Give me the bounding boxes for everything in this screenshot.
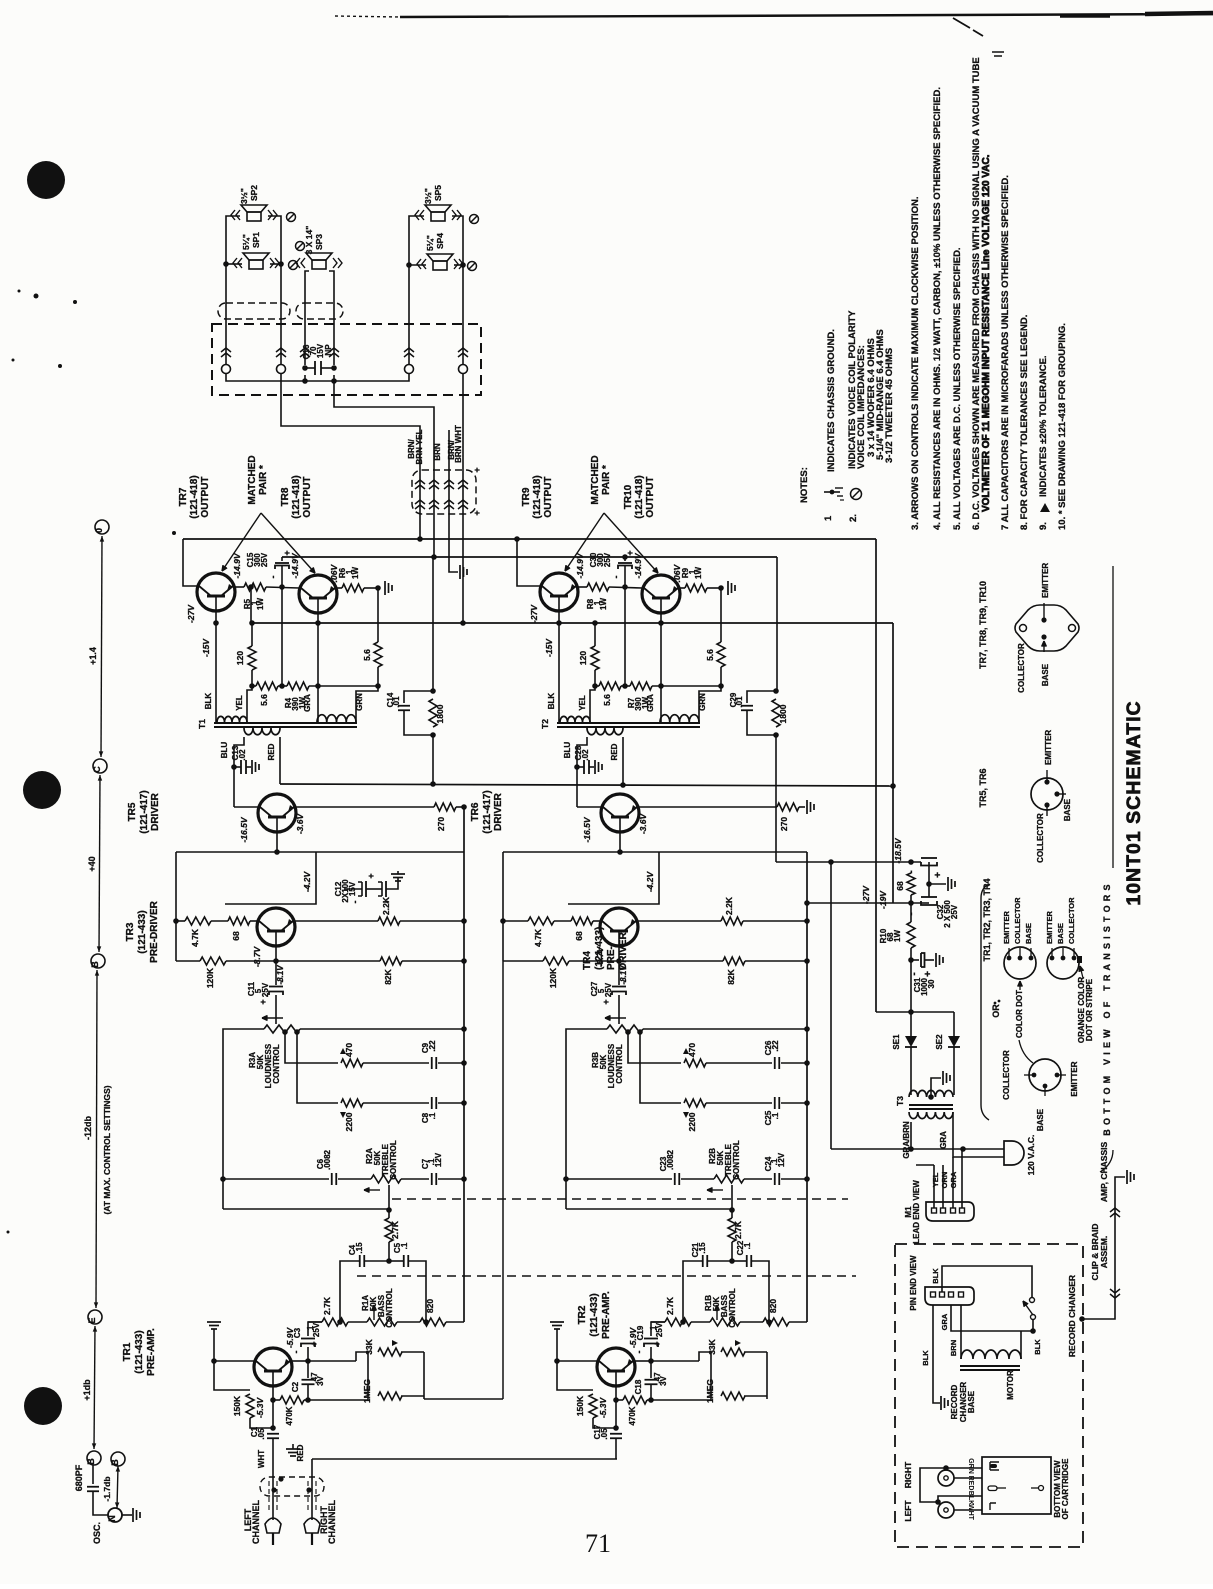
- transistor TR5: [258, 794, 296, 832]
- polarity mark SP5: [470, 215, 479, 224]
- wire speaker line down: [432, 557, 434, 691]
- junction RED rail: [890, 783, 896, 789]
- svg-text:120: 120: [235, 651, 245, 665]
- svg-text:OUTPUT: OUTPUT: [302, 476, 313, 517]
- junction: [622, 683, 628, 689]
- resistor R6: [342, 584, 364, 592]
- svg-text:OUTPUT: OUTPUT: [200, 476, 211, 517]
- svg-text:+: +: [652, 1341, 662, 1346]
- wire TR5 base down: [619, 832, 621, 852]
- speaker SP1: [249, 260, 263, 269]
- wire: [554, 920, 571, 922]
- wire GRN: [946, 1467, 982, 1469]
- wire to collector: [557, 1360, 597, 1362]
- resistor 68: [907, 873, 915, 895]
- node C: [93, 759, 107, 773]
- node B3: [111, 1452, 125, 1466]
- wire: [781, 1102, 807, 1104]
- resistor 2.7K (treble): [385, 1218, 393, 1242]
- wire: [556, 1329, 558, 1361]
- wire bass row to C3: [651, 1322, 665, 1336]
- wire connector bus: [226, 374, 409, 382]
- svg-text:-27V: -27V: [529, 604, 539, 623]
- resistor 5.6 (left): [599, 682, 621, 690]
- wire emitter: [292, 1360, 308, 1362]
- junction rail/TR9 feed: [514, 536, 520, 542]
- wire SP3 left down: [305, 271, 309, 360]
- wire M1 pin3: [952, 1157, 954, 1208]
- svg-text:-: -: [909, 972, 920, 975]
- junction: [430, 732, 436, 738]
- wire right bus: [463, 807, 465, 1322]
- transistor TR8: [299, 575, 337, 613]
- wire to C27: [618, 961, 620, 985]
- svg-text:PAIR *: PAIR *: [258, 465, 269, 495]
- wire TR2 base down: [615, 1386, 617, 1430]
- ground preamp: [207, 1321, 221, 1323]
- switch: [1030, 1298, 1035, 1303]
- connector pin end view: [925, 1287, 974, 1305]
- svg-text:INDICATES ±20% TOLERANCE.: INDICATES ±20% TOLERANCE.: [1038, 355, 1049, 497]
- svg-text:.01: .01: [392, 696, 401, 708]
- wire SP1 right: [270, 263, 281, 265]
- transistor TR3: [257, 908, 295, 946]
- svg-text:.05: .05: [257, 1428, 266, 1440]
- wire: [699, 1352, 711, 1361]
- resistor 33K: [721, 1348, 745, 1356]
- svg-text:-8.7V: -8.7V: [595, 946, 605, 968]
- junction 4.7K row: [173, 918, 179, 924]
- node B2: [87, 1451, 101, 1465]
- svg-text:10. * SEE DRAWING 121-418 FOR: 10. * SEE DRAWING 121-418 FOR GROUPING.: [1057, 323, 1068, 530]
- connector pin: [277, 365, 286, 374]
- wire 150K to base: [593, 1418, 616, 1428]
- svg-text:33K: 33K: [364, 1338, 374, 1354]
- svg-text:TR9: TR9: [521, 487, 532, 506]
- svg-text:120K: 120K: [205, 967, 215, 988]
- wire TR3 emitter row: [295, 920, 378, 922]
- pointer to TR9: [565, 513, 604, 571]
- svg-text:120K: 120K: [548, 967, 558, 988]
- capacitor C24: [774, 1173, 776, 1185]
- resistor 470K: [280, 1396, 304, 1404]
- polarity symbol in notes: [851, 489, 862, 500]
- ground AMP CHASSIS: [1126, 1170, 1128, 1184]
- amp connector chevron: [415, 480, 425, 484]
- wire SE feed: [876, 1011, 954, 1013]
- svg-text:SP5: SP5: [433, 185, 443, 201]
- ground C32: [947, 877, 949, 891]
- resistor 1MEG: [378, 1392, 402, 1400]
- punch hole 1: [27, 161, 65, 199]
- wire switch down: [1032, 1319, 1034, 1331]
- svg-text:-: -: [277, 980, 287, 983]
- wire: [308, 1321, 322, 1323]
- connector chevron: [300, 348, 310, 352]
- capacitor C12 (2x100): [344, 888, 362, 890]
- wire motor to switch: [1020, 1331, 1022, 1359]
- svg-text:VOLTMETER OF 11 MEGOHM INPUT R: VOLTMETER OF 11 MEGOHM INPUT RESISTANCE …: [981, 154, 992, 512]
- wire TR3 base down: [275, 946, 277, 961]
- potentiometer R2B treble control: [714, 1175, 744, 1183]
- wire M1 pin2: [942, 1165, 944, 1208]
- svg-text:BASE: BASE: [1036, 1108, 1045, 1131]
- wire: [401, 1395, 424, 1397]
- wire: [910, 948, 912, 1012]
- svg-text:(AT MAX. CONTROL SETTINGS): (AT MAX. CONTROL SETTINGS): [102, 1085, 112, 1214]
- wire: [651, 1399, 711, 1401]
- svg-text:3. ARROWS ON CONTROLS INDICAT: 3. ARROWS ON CONTROLS INDICATE MAXIMUM C…: [910, 196, 921, 530]
- wire: [388, 1242, 390, 1261]
- capacitor C14: [404, 691, 433, 703]
- wire through connector: [433, 470, 435, 530]
- svg-text:-4.2V: -4.2V: [302, 871, 312, 893]
- wire second rail: [282, 556, 777, 558]
- junction C30: [622, 554, 628, 560]
- svg-text:1W: 1W: [256, 598, 265, 610]
- wire TR3 base down: [618, 946, 620, 961]
- wire record changer to amp chassis: [1082, 1177, 1125, 1319]
- svg-text:PAIR *: PAIR *: [601, 465, 612, 495]
- wire: [743, 920, 807, 922]
- wire: [731, 1242, 733, 1261]
- tap 1: [282, 1029, 288, 1035]
- svg-text:470K: 470K: [285, 1406, 294, 1425]
- wire to rail: [419, 530, 421, 539]
- junction: [279, 683, 285, 689]
- wire: [651, 1360, 699, 1362]
- svg-text:GRA: GRA: [940, 1313, 949, 1330]
- svg-text:TR5, TR6: TR5, TR6: [978, 768, 988, 807]
- svg-text:C: C: [92, 766, 102, 773]
- wire BLK to switch: [942, 1266, 1032, 1297]
- junction 4.7K row: [500, 918, 506, 924]
- wire -4.2V branch: [568, 852, 659, 904]
- wire treble row left: [566, 1178, 672, 1180]
- wire: [910, 903, 912, 922]
- svg-text:.05: .05: [600, 1428, 609, 1440]
- resistor 820: [420, 1318, 446, 1326]
- potentiometer R2A treble control: [371, 1175, 401, 1183]
- svg-text:COLLECTOR: COLLECTOR: [1067, 897, 1076, 944]
- resistor 2.7K (treble): [728, 1218, 736, 1242]
- svg-text:-27V: -27V: [861, 885, 871, 904]
- junction shield: [278, 1476, 283, 1481]
- transistor TR6: [601, 794, 639, 832]
- transformer T1 secondary: [244, 728, 280, 735]
- svg-text:SE2: SE2: [935, 1034, 944, 1050]
- wire C5 to 820: [408, 1261, 426, 1322]
- capacitor C5: [403, 1255, 405, 1267]
- wire speaker feed BRN: [334, 381, 434, 470]
- svg-text:+1db: +1db: [82, 1379, 92, 1401]
- wire jack frames: [920, 1468, 946, 1502]
- wire to 150K: [557, 1361, 593, 1390]
- wire emitter: [635, 1360, 651, 1362]
- junction: [249, 683, 255, 689]
- wire: [211, 920, 228, 922]
- 120 VAC plug: [1004, 1141, 1024, 1165]
- pointer to TR8: [261, 513, 315, 573]
- svg-text:SE1: SE1: [892, 1034, 901, 1050]
- svg-text:.1: .1: [743, 1242, 752, 1249]
- svg-text:25V: 25V: [261, 982, 270, 997]
- svg-text:2.7K: 2.7K: [665, 1296, 675, 1315]
- wire RED feedback rail: [280, 784, 893, 786]
- svg-text:-4.2V: -4.2V: [645, 871, 655, 893]
- svg-text:CONTROL: CONTROL: [728, 1288, 737, 1328]
- svg-text:BRN: BRN: [433, 443, 442, 461]
- wire SP4 left: [409, 264, 426, 266]
- junction C16 left: [302, 365, 308, 371]
- svg-text:RED: RED: [610, 743, 619, 760]
- transformer T1 primary: [217, 716, 247, 722]
- wire: [275, 995, 277, 1014]
- wire: [744, 1178, 772, 1180]
- resistor 68: [228, 917, 250, 925]
- svg-text:COLLECTOR: COLLECTOR: [1013, 897, 1022, 944]
- svg-text:MATCHED: MATCHED: [247, 455, 258, 504]
- wire to C11: [275, 961, 277, 985]
- transistor TR2: [597, 1348, 635, 1386]
- svg-text:PRE-: PRE-: [606, 946, 617, 970]
- wire to 150K: [214, 1361, 250, 1390]
- svg-text:GRA/BRN: GRA/BRN: [902, 1121, 911, 1159]
- svg-text:C2: C2: [291, 1381, 300, 1392]
- svg-text:CONTROL: CONTROL: [272, 1044, 281, 1084]
- wire TR7 base to primary: [215, 611, 217, 722]
- svg-text:1W: 1W: [893, 930, 902, 942]
- color dot annotation: [1019, 981, 1021, 990]
- wire BLK to base ground: [933, 1305, 940, 1403]
- resistor 150K: [246, 1394, 254, 1418]
- svg-text:-: -: [620, 980, 630, 983]
- svg-text:DRIVER: DRIVER: [493, 792, 504, 831]
- junction C15/R5: [279, 584, 285, 590]
- pot track R3A: [264, 1025, 300, 1033]
- wire WHT to LEFT plug: [272, 1459, 274, 1520]
- wire: [363, 1102, 429, 1104]
- resistor 4.7K: [185, 917, 211, 925]
- wire tap2 to 2200: [297, 1032, 338, 1103]
- wire RED: [954, 1477, 982, 1479]
- wire rail to TR9 collector: [517, 539, 542, 586]
- svg-text:MOTOR: MOTOR: [1006, 1370, 1015, 1400]
- wire: [438, 1102, 464, 1104]
- wire to collector: [214, 1360, 254, 1362]
- wire: [233, 586, 244, 588]
- svg-text:EMITTER: EMITTER: [1045, 911, 1054, 944]
- svg-text:4. ALL RESISTANCES ARE IN OHM: 4. ALL RESISTANCES ARE IN OHMS. 1/2 WATT…: [932, 87, 943, 530]
- node B: [91, 954, 105, 968]
- svg-text:T1: T1: [197, 719, 207, 729]
- wire pot left down: [223, 1029, 264, 1209]
- wire C-B: [99, 775, 100, 952]
- svg-text:(121-418): (121-418): [532, 475, 543, 518]
- svg-text:3½": 3½": [239, 188, 249, 204]
- tap 1: [625, 1029, 631, 1035]
- potentiometer R1A bass control: [367, 1318, 397, 1326]
- svg-text:BOTTOM VIEW OF TRANSISTORS: BOTTOM VIEW OF TRANSISTORS: [1102, 880, 1112, 1135]
- wire to OSC node: [93, 1492, 108, 1515]
- svg-text:5.6: 5.6: [259, 694, 269, 706]
- pointer to TR7: [222, 513, 261, 571]
- wire input: [272, 1438, 274, 1459]
- junction C15/R5: [622, 584, 628, 590]
- svg-text:820: 820: [768, 1299, 778, 1313]
- connector pin: [405, 365, 414, 374]
- svg-text:BASE: BASE: [1041, 663, 1050, 686]
- wire to plug prong 2: [953, 1112, 1004, 1157]
- svg-text:(121-433): (121-433): [137, 910, 148, 953]
- svg-text:9.: 9.: [1038, 522, 1049, 530]
- svg-text:-15V: -15V: [544, 638, 554, 657]
- wire tap to ground: [931, 1078, 941, 1097]
- wire: [680, 587, 685, 589]
- motor coil: [961, 1350, 1021, 1359]
- svg-text:CHANNEL: CHANNEL: [251, 1499, 261, 1544]
- svg-text:DRIVER: DRIVER: [150, 792, 161, 831]
- svg-text:+: +: [625, 550, 635, 555]
- svg-text:.15: .15: [355, 1242, 364, 1254]
- svg-text:+: +: [472, 467, 482, 472]
- wire: [250, 920, 259, 922]
- potentiometer R1B bass control: [710, 1318, 740, 1326]
- capacitor 680PF: [87, 1486, 99, 1488]
- wire C15 junction down: [624, 587, 626, 686]
- resistor R9: [685, 584, 707, 592]
- wire rail to C29: [776, 557, 778, 691]
- junction: [773, 688, 779, 694]
- speaker connector plug (dashed) left: [218, 303, 290, 319]
- svg-text:CHANNEL: CHANNEL: [327, 1499, 337, 1544]
- wire M1 pin1: [933, 1165, 935, 1208]
- wire 33K/1MEG left bus: [367, 1352, 369, 1396]
- wire speaker feed BRN/BRN YEL: [281, 374, 420, 471]
- small can view 3: [1029, 1059, 1061, 1091]
- wire 33K/1MEG left bus: [710, 1352, 712, 1396]
- wire TR10 base to primary: [660, 613, 662, 722]
- svg-text:BLK: BLK: [1033, 1339, 1042, 1355]
- svg-text:BLU: BLU: [563, 742, 572, 759]
- resistor 470: [684, 1059, 706, 1067]
- wire: [706, 1102, 772, 1104]
- capacitor C4: [359, 1255, 361, 1267]
- wire line B down: [892, 623, 894, 903]
- transformer T2 core: [557, 722, 700, 724]
- svg-text:OR: OR: [991, 1004, 1001, 1018]
- resistor 5.6 (right): [374, 642, 382, 667]
- wire BLK: [938, 1496, 982, 1502]
- svg-text:2.7K: 2.7K: [390, 1220, 400, 1239]
- svg-text:1W: 1W: [599, 598, 608, 610]
- junction SP4 left: [406, 262, 412, 268]
- wire: [226, 960, 380, 962]
- svg-text:2200: 2200: [344, 1112, 354, 1131]
- svg-text:470: 470: [687, 1043, 697, 1057]
- wire: [308, 1360, 356, 1362]
- svg-text:.22: .22: [771, 1040, 780, 1052]
- svg-text:LEAD END VIEW: LEAD END VIEW: [912, 1180, 921, 1244]
- resistor 68: [571, 917, 593, 925]
- wire to RED rail: [432, 735, 434, 784]
- connector chevron: [404, 348, 414, 352]
- ground at OSC: [132, 1508, 134, 1522]
- svg-text:E: E: [87, 1317, 97, 1323]
- svg-text:BASE: BASE: [967, 1390, 976, 1413]
- svg-text:-3.6V: -3.6V: [638, 813, 648, 835]
- wire to bus: [456, 806, 464, 808]
- wire: [438, 1178, 464, 1180]
- ground record changer base: [940, 1396, 942, 1410]
- svg-text:BLU: BLU: [220, 742, 229, 759]
- svg-text:BLK: BLK: [931, 1268, 940, 1284]
- svg-text:5.6: 5.6: [362, 649, 372, 661]
- junction SP1 right: [278, 261, 284, 267]
- wire C5 to 820: [751, 1261, 769, 1322]
- junction: [773, 732, 779, 738]
- svg-text:1800: 1800: [435, 704, 445, 723]
- capacitor C9: [431, 1057, 433, 1069]
- wire ganged control (dashed) bass: [357, 1275, 856, 1277]
- svg-text:2.2K: 2.2K: [381, 896, 391, 915]
- svg-text:T2: T2: [540, 719, 550, 729]
- wire YEL feed down: [830, 862, 832, 1149]
- svg-text:OSC.: OSC.: [92, 1522, 102, 1544]
- capacitor C16: [305, 367, 315, 369]
- svg-text:25V: 25V: [603, 552, 612, 567]
- svg-text:-8.7V: -8.7V: [252, 946, 262, 968]
- wire TR5 emitter row: [296, 806, 434, 808]
- svg-text:-: -: [634, 1351, 644, 1354]
- svg-text:4.7K: 4.7K: [190, 928, 200, 947]
- wire: [652, 685, 721, 687]
- svg-text:1: 1: [823, 515, 834, 521]
- wire SP4 right: [454, 264, 463, 266]
- svg-text:INDICATES CHASSIS GROUND.: INDICATES CHASSIS GROUND.: [826, 329, 837, 472]
- svg-text:33K: 33K: [707, 1338, 717, 1354]
- capacitor C13: [234, 766, 241, 768]
- wire 120K row: [503, 960, 543, 962]
- svg-text:4.7K: 4.7K: [533, 928, 543, 947]
- resistor 4.7K: [528, 917, 554, 925]
- resistor 2.7K (bass): [665, 1318, 691, 1326]
- svg-text:.0082: .0082: [666, 1149, 675, 1170]
- wire tap1 to 470: [285, 1032, 338, 1063]
- svg-text:.1: .1: [400, 1242, 409, 1249]
- svg-text:RED: RED: [267, 743, 276, 760]
- svg-text:8. FOR CAPACITY TOLERANCES SE: 8. FOR CAPACITY TOLERANCES SEE LEGEND.: [1019, 315, 1030, 530]
- wire O-C: [101, 536, 102, 757]
- capacitor C23: [674, 1173, 676, 1185]
- speaker connector plug (dashed) mid: [296, 303, 343, 319]
- punch hole 2: [23, 771, 61, 809]
- svg-text:3½": 3½": [423, 188, 433, 204]
- svg-text:N: N: [107, 1515, 117, 1522]
- capacitor C29: [747, 691, 776, 703]
- svg-text:470K: 470K: [628, 1406, 637, 1425]
- wire ganged control (dashed) treble: [392, 1198, 848, 1200]
- svg-text:RIGHT: RIGHT: [903, 1461, 913, 1488]
- transistor TR1: [254, 1348, 292, 1386]
- junction YEL feed: [828, 859, 834, 865]
- resistor R8: [587, 583, 609, 591]
- resistor 2.7K (bass): [322, 1318, 348, 1326]
- center tap: [928, 1094, 934, 1100]
- svg-text:68: 68: [231, 931, 241, 941]
- resistor 150K: [589, 1394, 597, 1418]
- ground after R6: [384, 581, 386, 595]
